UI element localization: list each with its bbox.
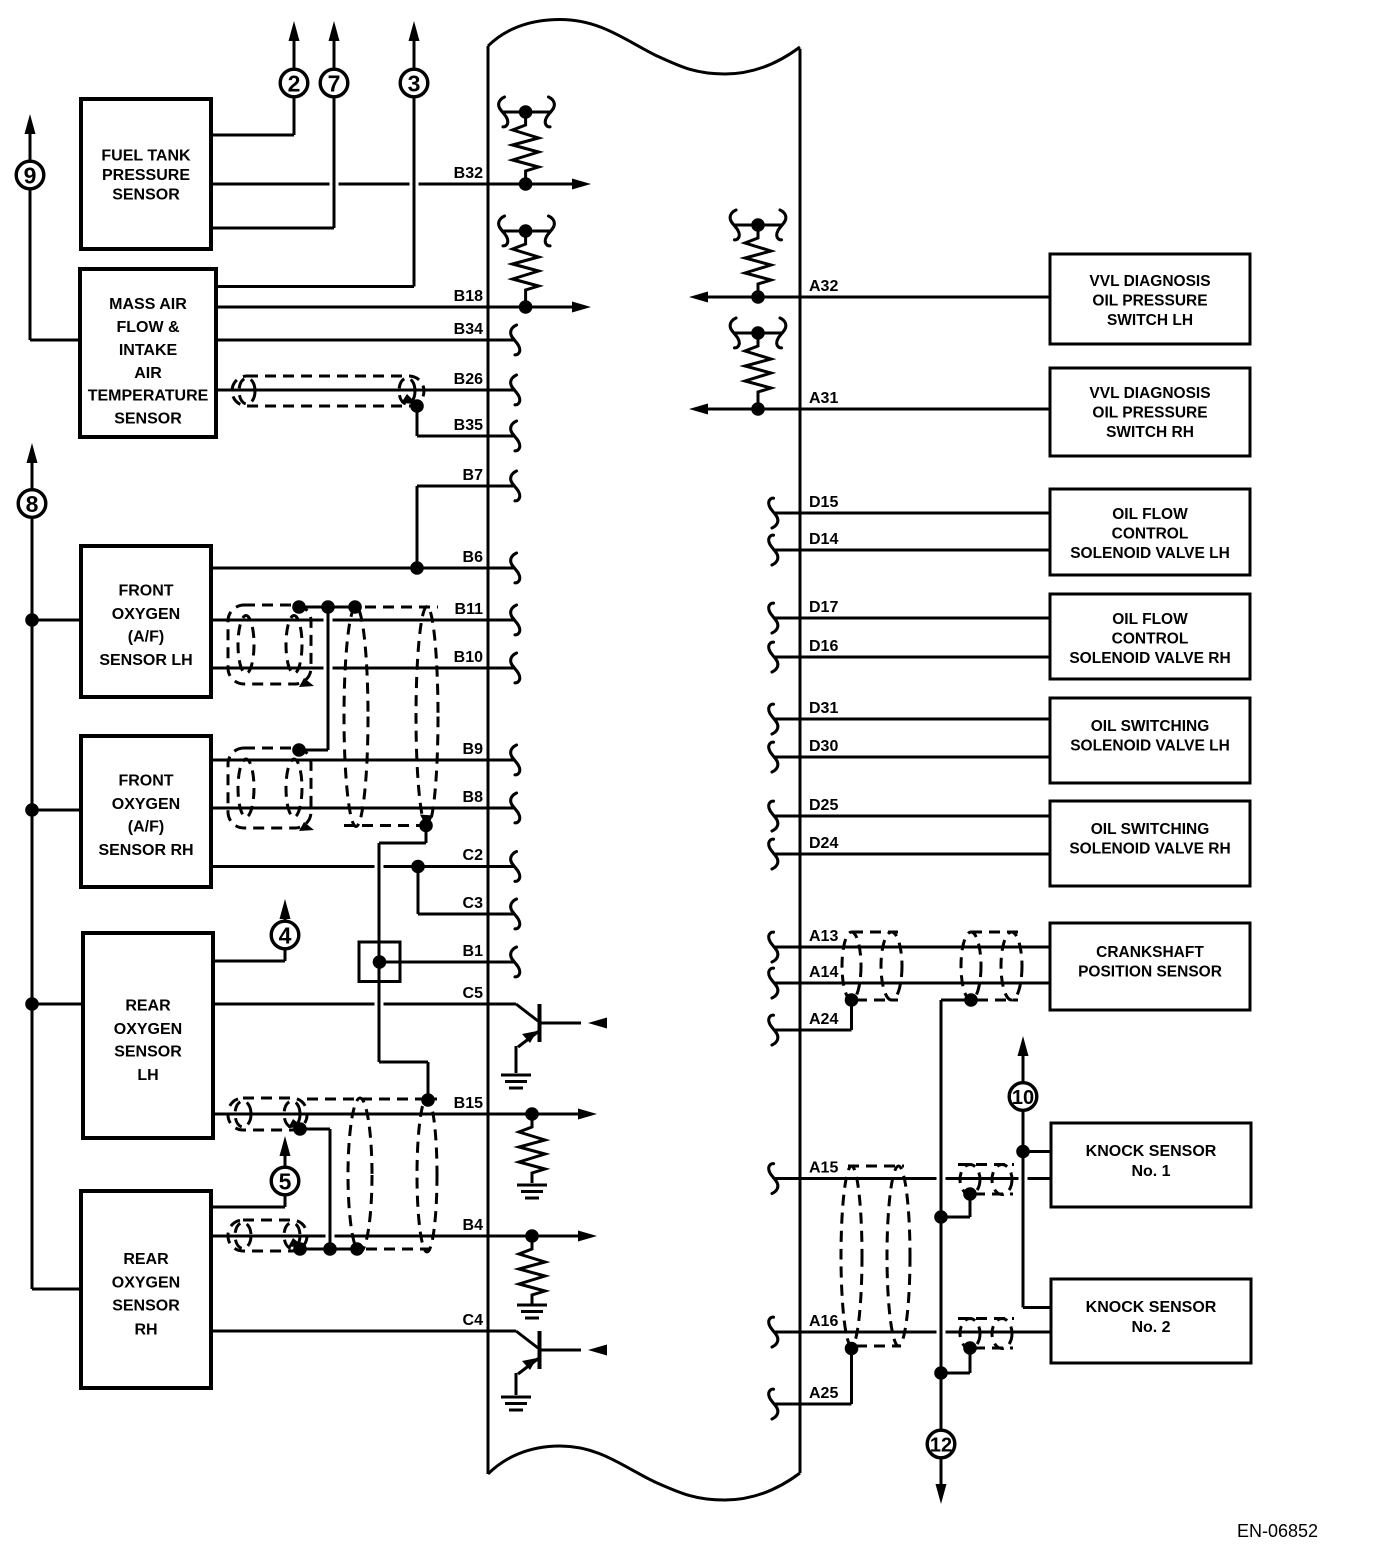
wire D14 solenoid valve bbox=[775, 549, 1050, 552]
svg-text:RH: RH bbox=[134, 1322, 157, 1339]
shield end arrow at B15 shield bbox=[288, 1119, 303, 1128]
svg-text:5: 5 bbox=[279, 1169, 292, 1195]
svg-text:A32: A32 bbox=[809, 278, 838, 295]
shield drain to B35 bbox=[410, 399, 424, 436]
wire knock sensor 1 hot to connector 10 bus bbox=[1016, 1110, 1051, 1308]
svg-text:SENSOR: SENSOR bbox=[114, 411, 182, 428]
pin label B6 bbox=[463, 549, 484, 566]
hook B10 bbox=[511, 653, 520, 683]
svg-text:4: 4 bbox=[279, 923, 292, 949]
wire B10 front oxygen LH signal bbox=[211, 667, 514, 670]
knock sensor shield ground bus bbox=[934, 1000, 948, 1430]
pin label B10 bbox=[454, 649, 483, 666]
output driver transistor at C4 bbox=[516, 1331, 607, 1395]
pin label B26 bbox=[454, 371, 483, 388]
hook B8 bbox=[511, 793, 520, 823]
output driver transistor at C5 bbox=[516, 1004, 607, 1073]
pin label B34 bbox=[454, 321, 483, 338]
svg-text:PRESSURE: PRESSURE bbox=[102, 167, 190, 184]
svg-text:SENSOR LH: SENSOR LH bbox=[99, 652, 192, 669]
svg-text:EN-06852: EN-06852 bbox=[1237, 1521, 1318, 1541]
lower tall shield top dashed link bbox=[307, 1098, 437, 1101]
wire D25 solenoid valve bbox=[775, 815, 1050, 818]
svg-text:CONTROL: CONTROL bbox=[1112, 631, 1189, 648]
tall shield around knock sensor wires bbox=[841, 1166, 910, 1346]
wire C5 rear oxygen LH signal bbox=[213, 1003, 516, 1006]
pull-up resistor at B32 bbox=[513, 105, 539, 191]
svg-text:OXYGEN: OXYGEN bbox=[112, 1275, 180, 1292]
svg-text:SENSOR: SENSOR bbox=[114, 1044, 182, 1061]
wire B7 bbox=[417, 486, 514, 568]
svg-text:FRONT: FRONT bbox=[118, 583, 173, 600]
wire B18 mass air flow signal bbox=[216, 302, 591, 313]
shield tie bar at B11 bbox=[292, 600, 362, 614]
wire B8 front oxygen RH signal bbox=[211, 807, 514, 810]
wire front oxygen LH to ground bus bbox=[32, 619, 81, 622]
external connector 5 circle and arrow bbox=[271, 1136, 299, 1195]
pin label A16 bbox=[809, 1313, 838, 1330]
wire B4 rear oxygen RH heater bbox=[210, 1229, 597, 1243]
svg-text:D24: D24 bbox=[809, 835, 838, 852]
svg-text:FLOW &: FLOW & bbox=[116, 319, 180, 336]
svg-text:A25: A25 bbox=[809, 1385, 838, 1402]
wire D30 solenoid valve bbox=[775, 756, 1050, 759]
svg-text:9: 9 bbox=[24, 163, 37, 189]
svg-text:8: 8 bbox=[26, 491, 39, 517]
wire fuel tank sensor to connector 2 bbox=[211, 98, 294, 136]
hook D15 bbox=[769, 498, 778, 528]
pin label B7 bbox=[463, 467, 484, 484]
shield drain from tall shield to B1 node bbox=[379, 819, 433, 962]
shield around B11 B10 pair bbox=[228, 605, 311, 684]
wire rear oxygen RH to ground bus corner bbox=[32, 1288, 81, 1291]
svg-text:SOLENOID VALVE RH: SOLENOID VALVE RH bbox=[1069, 841, 1230, 858]
power rail with hooks at A31 resistor bbox=[730, 318, 786, 348]
oil flow control solenoid valve LH box bbox=[1050, 489, 1250, 575]
wire A24 shield ground bbox=[775, 1029, 852, 1032]
ground at B4 resistor bbox=[517, 1305, 547, 1318]
svg-text:B11: B11 bbox=[455, 601, 484, 618]
wire B11 front oxygen LH signal bbox=[211, 619, 514, 622]
power rail with hooks at A32 resistor bbox=[730, 210, 786, 240]
hook A25 bbox=[769, 1389, 778, 1419]
hook B35 bbox=[511, 421, 520, 451]
svg-text:C3: C3 bbox=[463, 895, 484, 912]
hook B34 bbox=[511, 325, 520, 355]
external connector 12 circle and arrow bbox=[927, 1430, 955, 1504]
wire B9 front oxygen RH signal bbox=[211, 759, 514, 762]
svg-text:D31: D31 bbox=[809, 700, 838, 717]
pin label C3 bbox=[463, 895, 484, 912]
hook B26 bbox=[511, 375, 520, 405]
shield 2 drain to ground bus bbox=[941, 993, 978, 1007]
svg-text:3: 3 bbox=[408, 71, 421, 97]
svg-text:A16: A16 bbox=[809, 1313, 838, 1330]
small shield at knock sensor 1 bbox=[958, 1165, 1014, 1195]
pin label A14 bbox=[809, 964, 838, 981]
svg-text:INTAKE: INTAKE bbox=[119, 342, 178, 359]
svg-text:B34: B34 bbox=[454, 321, 483, 338]
svg-text:A13: A13 bbox=[809, 928, 838, 945]
pull-up resistor at A32 bbox=[745, 218, 771, 304]
svg-text:B8: B8 bbox=[463, 789, 484, 806]
pin label A25 bbox=[809, 1385, 838, 1402]
pin label D14 bbox=[809, 531, 838, 548]
svg-text:OIL SWITCHING: OIL SWITCHING bbox=[1091, 821, 1210, 838]
svg-text:B26: B26 bbox=[454, 371, 483, 388]
svg-text:FRONT: FRONT bbox=[118, 773, 173, 790]
svg-text:LH: LH bbox=[137, 1067, 158, 1084]
VVL diagnosis oil pressure switch LH box bbox=[1050, 254, 1250, 344]
hook C3 bbox=[511, 899, 520, 929]
shield link B15 to B4 shields bbox=[293, 1122, 364, 1256]
small shield at knock sensor 2 bbox=[958, 1319, 1014, 1349]
hook D31 bbox=[769, 704, 778, 734]
mass air flow and intake air temperature sensor box bbox=[80, 269, 216, 437]
knock sensor No.1 box bbox=[1051, 1123, 1251, 1207]
wire A32 VVL oil pressure switch LH bbox=[689, 292, 1050, 303]
shield around B9 B8 pair bbox=[228, 748, 311, 828]
svg-text:(A/F): (A/F) bbox=[128, 629, 164, 646]
svg-text:OIL SWITCHING: OIL SWITCHING bbox=[1091, 718, 1210, 735]
svg-text:B7: B7 bbox=[463, 467, 484, 484]
wire C3 bbox=[418, 913, 514, 916]
power rail with hooks at B18 resistor bbox=[499, 216, 555, 246]
svg-text:No. 1: No. 1 bbox=[1131, 1163, 1170, 1180]
svg-text:TEMPERATURE: TEMPERATURE bbox=[88, 388, 209, 405]
pin label D17 bbox=[809, 599, 838, 616]
svg-text:D25: D25 bbox=[809, 797, 838, 814]
rear oxygen sensor LH box bbox=[83, 933, 213, 1138]
wire B35 shield ground bbox=[417, 435, 514, 438]
pin label B9 bbox=[463, 741, 484, 758]
wire rear oxygen LH to ground bus bbox=[32, 1003, 83, 1006]
hook D17 bbox=[769, 603, 778, 633]
pin label D31 bbox=[809, 700, 838, 717]
svg-text:SENSOR: SENSOR bbox=[112, 187, 180, 204]
pin label B11 bbox=[455, 601, 484, 618]
wire rear oxygen LH to connector 4 bbox=[213, 949, 285, 962]
svg-text:No. 2: No. 2 bbox=[1131, 1319, 1170, 1336]
svg-text:D14: D14 bbox=[809, 531, 838, 548]
hook D30 bbox=[769, 742, 778, 772]
wire D17 solenoid valve bbox=[775, 617, 1050, 620]
hook A24 bbox=[769, 1015, 778, 1045]
svg-text:KNOCK SENSOR: KNOCK SENSOR bbox=[1086, 1299, 1217, 1316]
figure number EN-06852 bbox=[1237, 1521, 1318, 1541]
shield tie wire from B11 shield to B9 shield bbox=[292, 607, 328, 757]
pin label C5 bbox=[463, 985, 484, 1002]
small shield 1 drain bbox=[941, 1187, 977, 1217]
shield pair 1 around crankshaft wires bbox=[842, 932, 902, 1000]
wire B32 fuel tank pressure sensor signal bbox=[211, 179, 591, 190]
external connector 10 circle and arrow bbox=[1009, 1036, 1037, 1110]
pin label C4 bbox=[463, 1312, 484, 1329]
shield around B15 wire bbox=[228, 1098, 307, 1130]
svg-text:KNOCK SENSOR: KNOCK SENSOR bbox=[1086, 1143, 1217, 1160]
lower tall shield bottom dashed link bbox=[348, 1248, 437, 1251]
svg-text:VVL DIAGNOSIS: VVL DIAGNOSIS bbox=[1089, 385, 1210, 402]
pin label D24 bbox=[809, 835, 838, 852]
external connector 7 circle and arrow bbox=[320, 21, 348, 97]
hook D14 bbox=[769, 535, 778, 565]
svg-text:C5: C5 bbox=[463, 985, 484, 1002]
tall shield top dashed link bbox=[311, 606, 438, 609]
pin label B18 bbox=[454, 288, 483, 305]
hook A16 bbox=[769, 1317, 778, 1347]
pull-up resistor at A31 bbox=[745, 326, 771, 416]
hook A13 bbox=[769, 932, 778, 962]
wire A16 knock sensor 2 signal bbox=[775, 1331, 1051, 1334]
wire B15 rear oxygen LH heater bbox=[213, 1107, 597, 1121]
hook D24 bbox=[769, 839, 778, 869]
svg-text:B18: B18 bbox=[454, 288, 483, 305]
hook B1 bbox=[511, 947, 520, 977]
svg-text:7: 7 bbox=[328, 71, 341, 97]
wire A13 crankshaft sensor bbox=[775, 946, 1050, 949]
pull-down resistor at B4 bbox=[519, 1236, 545, 1305]
hook D16 bbox=[769, 642, 778, 672]
svg-text:10: 10 bbox=[1012, 1087, 1034, 1109]
svg-text:OXYGEN: OXYGEN bbox=[112, 606, 180, 623]
svg-text:OIL FLOW: OIL FLOW bbox=[1112, 506, 1188, 523]
svg-text:A15: A15 bbox=[809, 1160, 838, 1177]
svg-text:FUEL TANK: FUEL TANK bbox=[101, 148, 191, 165]
hook D25 bbox=[769, 801, 778, 831]
shield end arrow at tall oxygen shield bbox=[420, 815, 433, 829]
hook A14 bbox=[769, 968, 778, 998]
crankshaft position sensor box bbox=[1050, 923, 1250, 1010]
pin label B15 bbox=[454, 1095, 483, 1112]
ECU control module left edge bbox=[487, 46, 490, 1474]
svg-text:D16: D16 bbox=[809, 638, 838, 655]
hook B11 bbox=[511, 605, 520, 635]
tall shield around rear oxygen signals bbox=[348, 1098, 437, 1252]
pin label A13 bbox=[809, 928, 838, 945]
wire B6 front oxygen LH bbox=[211, 561, 514, 575]
oil switching solenoid valve LH box bbox=[1050, 698, 1250, 783]
knock tall shield drain to A25 bbox=[845, 1342, 859, 1404]
wire D16 solenoid valve bbox=[775, 656, 1050, 659]
svg-text:SENSOR RH: SENSOR RH bbox=[98, 842, 193, 859]
svg-text:B4: B4 bbox=[463, 1217, 484, 1234]
wire connector 9 to mass air flow sensor bbox=[30, 190, 80, 341]
pin label A31 bbox=[809, 390, 838, 407]
shield end arrow at B4 shield bbox=[288, 1238, 303, 1247]
hook A15 bbox=[769, 1164, 778, 1194]
svg-text:A14: A14 bbox=[809, 964, 838, 981]
wire D24 solenoid valve bbox=[775, 853, 1050, 856]
shield drain continues from B1 to lower tall shield bbox=[379, 962, 435, 1107]
external connector 2 circle and arrow bbox=[280, 21, 308, 97]
svg-text:B32: B32 bbox=[454, 165, 483, 182]
rear oxygen sensor RH box bbox=[81, 1191, 211, 1388]
hook B9 bbox=[511, 745, 520, 775]
wire mass air flow sensor to connector 3 bbox=[216, 98, 414, 287]
svg-text:MASS AIR: MASS AIR bbox=[109, 296, 187, 313]
ground at C4 transistor bbox=[501, 1397, 531, 1410]
svg-text:B9: B9 bbox=[463, 741, 484, 758]
power rail with hooks at B32 resistor bbox=[499, 97, 555, 127]
tall shield bottom dashed link bbox=[344, 824, 434, 827]
ground at B15 resistor bbox=[517, 1185, 547, 1198]
svg-text:D17: D17 bbox=[809, 599, 838, 616]
wire B26 intake air temperature signal bbox=[216, 389, 514, 392]
wire front oxygen RH to ground bus bbox=[32, 809, 81, 812]
external connector 4 circle and arrow bbox=[271, 899, 299, 949]
external connector 9 circle and arrow bbox=[16, 114, 44, 189]
pin label A32 bbox=[809, 278, 838, 295]
pin label B32 bbox=[454, 165, 483, 182]
svg-text:SOLENOID VALVE LH: SOLENOID VALVE LH bbox=[1070, 738, 1230, 755]
svg-text:(A/F): (A/F) bbox=[128, 819, 164, 836]
wire D15 solenoid valve bbox=[775, 512, 1050, 515]
sensor ground bus from connector 8 bbox=[25, 517, 81, 1290]
svg-text:12: 12 bbox=[930, 1435, 952, 1457]
front oxygen sensor RH box bbox=[81, 736, 211, 887]
oil switching solenoid valve RH box bbox=[1050, 801, 1250, 886]
svg-text:SOLENOID VALVE RH: SOLENOID VALVE RH bbox=[1069, 650, 1230, 667]
wire C2 front oxygen RH bbox=[211, 860, 514, 874]
ground at C5 transistor bbox=[501, 1075, 531, 1088]
pin label A24 bbox=[809, 1011, 838, 1028]
svg-text:CONTROL: CONTROL bbox=[1112, 526, 1189, 543]
shield pair 2 around crankshaft wires bbox=[961, 932, 1022, 1000]
svg-text:SWITCH RH: SWITCH RH bbox=[1106, 424, 1194, 441]
wire B34 sensor ground bbox=[216, 339, 514, 342]
svg-text:SWITCH LH: SWITCH LH bbox=[1107, 312, 1193, 329]
hook C2 bbox=[511, 852, 520, 882]
svg-text:OIL PRESSURE: OIL PRESSURE bbox=[1092, 405, 1207, 422]
svg-text:OXYGEN: OXYGEN bbox=[112, 796, 180, 813]
pin label B35 bbox=[454, 417, 483, 434]
svg-text:SENSOR: SENSOR bbox=[112, 1298, 180, 1315]
wire C4 rear oxygen RH signal bbox=[210, 1330, 516, 1333]
svg-text:AIR: AIR bbox=[134, 365, 162, 382]
wire A15 knock sensor 1 signal bbox=[775, 1177, 1051, 1180]
wire D31 solenoid valve bbox=[775, 718, 1050, 721]
external connector 8 circle and arrow bbox=[18, 443, 46, 517]
svg-text:REAR: REAR bbox=[123, 1251, 169, 1268]
svg-text:2: 2 bbox=[288, 71, 301, 97]
svg-text:OIL FLOW: OIL FLOW bbox=[1112, 611, 1188, 628]
ECU control module right edge bbox=[799, 49, 802, 1473]
wire A25 shield ground bbox=[775, 1403, 852, 1406]
pin label B4 bbox=[463, 1217, 484, 1234]
svg-text:OIL PRESSURE: OIL PRESSURE bbox=[1092, 293, 1207, 310]
svg-text:B6: B6 bbox=[463, 549, 484, 566]
pin label D15 bbox=[809, 494, 838, 511]
shield end arrow at B26 shield bbox=[401, 394, 417, 404]
shield around B4 wire bbox=[228, 1220, 307, 1251]
shield end arrow at B11 B10 shield bbox=[299, 678, 314, 687]
svg-text:B35: B35 bbox=[454, 417, 483, 434]
jog wire C2 to C3 bbox=[417, 867, 420, 915]
knock sensor No.2 box bbox=[1051, 1279, 1251, 1363]
front oxygen sensor LH box bbox=[81, 546, 211, 697]
wire A31 VVL oil pressure switch RH bbox=[689, 404, 1050, 415]
pull-down resistor at B15 bbox=[519, 1114, 545, 1183]
pin label C2 bbox=[463, 847, 484, 864]
wire fuel tank sensor to connector 7 bbox=[211, 98, 334, 229]
shield end arrow at B9 B8 shield bbox=[299, 822, 314, 831]
hook B7 bbox=[511, 471, 520, 501]
pin label B8 bbox=[463, 789, 484, 806]
svg-text:B15: B15 bbox=[454, 1095, 483, 1112]
svg-text:OXYGEN: OXYGEN bbox=[114, 1021, 182, 1038]
svg-text:D30: D30 bbox=[809, 738, 838, 755]
pin label A15 bbox=[809, 1160, 838, 1177]
svg-text:VVL DIAGNOSIS: VVL DIAGNOSIS bbox=[1089, 273, 1210, 290]
pull-up resistor at B18 bbox=[513, 224, 539, 314]
pin label B1 bbox=[463, 943, 484, 960]
ECU bottom torn edge bbox=[488, 1446, 800, 1500]
svg-text:CRANKSHAFT: CRANKSHAFT bbox=[1096, 944, 1204, 961]
hook B6 bbox=[511, 553, 520, 583]
small shield 2 drain bbox=[941, 1341, 977, 1373]
svg-text:REAR: REAR bbox=[125, 998, 171, 1015]
svg-text:A24: A24 bbox=[809, 1011, 838, 1028]
svg-text:A31: A31 bbox=[809, 390, 838, 407]
svg-text:C4: C4 bbox=[463, 1312, 484, 1329]
oil flow control solenoid valve RH box bbox=[1050, 594, 1250, 679]
wire rear oxygen RH to connector 5 bbox=[210, 1196, 285, 1208]
ECU top torn edge bbox=[488, 20, 800, 75]
shield 1 drain to A24 bbox=[845, 993, 859, 1030]
svg-text:SOLENOID VALVE LH: SOLENOID VALVE LH bbox=[1070, 545, 1230, 562]
junction box node at B1 bbox=[359, 942, 400, 982]
svg-text:D15: D15 bbox=[809, 494, 838, 511]
VVL diagnosis oil pressure switch RH box bbox=[1050, 368, 1250, 456]
external connector 3 circle and arrow bbox=[400, 21, 428, 97]
svg-text:C2: C2 bbox=[463, 847, 484, 864]
shield around B26 wire bbox=[232, 376, 424, 406]
pin label D16 bbox=[809, 638, 838, 655]
wire A14 crankshaft sensor bbox=[775, 982, 1050, 985]
fuel tank pressure sensor box bbox=[81, 99, 211, 249]
tall shield around oxygen sensor signals bbox=[344, 607, 438, 827]
svg-text:B1: B1 bbox=[463, 943, 484, 960]
pin label D25 bbox=[809, 797, 838, 814]
wire B1 shield ground pin bbox=[380, 961, 514, 964]
svg-text:B10: B10 bbox=[454, 649, 483, 666]
pin label D30 bbox=[809, 738, 838, 755]
svg-text:POSITION SENSOR: POSITION SENSOR bbox=[1078, 964, 1222, 981]
